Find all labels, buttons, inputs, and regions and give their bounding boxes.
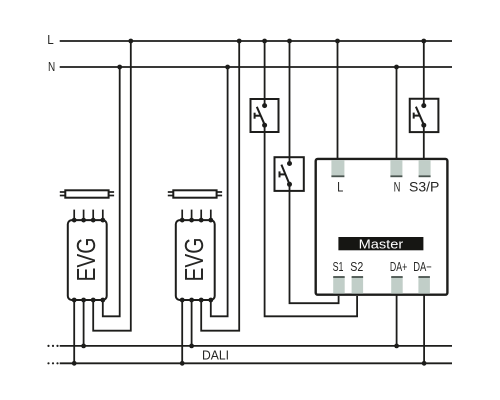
svg-text:DA+: DA+ — [390, 260, 407, 274]
wire: N bus line — [60, 66, 452, 68]
wire: EVG2 pin2 down to DALI upper line — [191, 300, 193, 346]
terminal S2 (bottom) — [352, 277, 364, 294]
lamp LA2 (fluorescent tube) — [168, 190, 222, 197]
EVG2 top pin stubs — [182, 210, 211, 221]
wire: vertical L bus to EVG1 pin3 (outer U) — [93, 41, 131, 331]
wire: vertical L bus to EVG2 pin3 (outer U) — [201, 41, 239, 331]
junction dots on DALI lower line — [72, 361, 427, 366]
wire: L bus down to pushbutton S3 top — [423, 41, 425, 106]
pushbutton S2 lever and plunger — [255, 107, 265, 125]
wire: L bus down to pushbutton S2 top — [264, 41, 266, 106]
wire: EVG1 pin2 down to DALI upper line — [83, 300, 85, 346]
master control unit U1 box — [316, 159, 448, 295]
wire: master DA- terminal down to DALI lower line — [423, 295, 425, 363]
wire: DALI DA- line (lower) — [60, 362, 452, 364]
wire: pushbutton S2 bottom to master S2 terminal — [265, 125, 358, 316]
dotted continuation of DALI lower line — [47, 362, 58, 364]
pushbutton S3 lever and plunger — [414, 107, 424, 126]
lamp LA1 (fluorescent tube) — [60, 190, 114, 197]
pushbutton S3 contacts — [421, 103, 426, 128]
svg-text:S1: S1 — [333, 260, 344, 274]
dotted continuation of DALI upper line — [47, 345, 58, 347]
EVG1 top pin dots — [72, 218, 105, 223]
junction dots on L bus — [128, 39, 426, 44]
terminal DA+ (bottom) — [391, 277, 403, 294]
wire: pushbutton S1 bottom to master S1 terminal — [290, 184, 339, 303]
svg-text:L: L — [47, 33, 54, 47]
ballast EVG2 box — [176, 220, 215, 300]
pushbutton S3 (right) box — [410, 99, 439, 132]
wire: L bus down to master L terminal — [337, 41, 339, 159]
wire: vertical N bus to EVG1 pin4 (inner U) — [103, 67, 120, 316]
EVG1 bottom pin dots — [72, 298, 105, 303]
wire: L bus line — [60, 40, 452, 42]
terminal S3/P (top) — [419, 160, 431, 176]
svg-text:DA−: DA− — [413, 260, 432, 274]
EVG2 top pin dots — [180, 218, 213, 223]
wire: master DA+ terminal down to DALI upper line — [396, 295, 398, 346]
Master name badge — [338, 236, 423, 251]
wire: L bus down to pushbutton S1 top — [289, 41, 291, 164]
terminal L (top) — [331, 160, 344, 176]
wire: DALI DA+ line (upper) — [60, 345, 452, 347]
wire: vertical N bus to EVG2 pin4 (inner U) — [211, 67, 228, 316]
ballast EVG1 box — [68, 220, 107, 300]
terminal DA&#8722; (bottom) — [418, 277, 430, 294]
wire: pushbutton S3 bottom to master S3/P terminal — [423, 125, 425, 158]
wire: EVG1 pin1 down to DALI lower line — [73, 300, 75, 363]
svg-text:Master: Master — [359, 236, 404, 251]
svg-text:S3/P: S3/P — [409, 179, 439, 195]
svg-text:S2: S2 — [350, 260, 363, 274]
junction dots on N bus — [117, 65, 399, 70]
EVG2 bottom pin dots — [180, 298, 213, 303]
wire: N bus down to master N terminal — [396, 67, 398, 159]
wire: EVG2 pin1 down to DALI lower line — [181, 300, 183, 363]
svg-text:EVG: EVG — [71, 238, 101, 282]
pushbutton S1 (middle) box — [275, 157, 304, 191]
svg-text:EVG: EVG — [179, 238, 209, 282]
junction dots on DALI upper line — [81, 344, 399, 349]
pushbutton S2 contacts — [262, 103, 267, 128]
pushbutton S1 contacts — [287, 161, 292, 187]
pushbutton S1 lever and plunger — [280, 165, 290, 185]
pushbutton S2 (left) box — [251, 99, 279, 132]
terminal S1 (bottom) — [333, 277, 345, 294]
svg-text:N: N — [394, 179, 401, 195]
svg-text:L: L — [337, 179, 343, 195]
svg-text:DALI: DALI — [202, 347, 229, 362]
terminal N (top) — [390, 160, 402, 176]
svg-text:N: N — [48, 60, 55, 74]
EVG1 top pin stubs — [74, 210, 103, 221]
